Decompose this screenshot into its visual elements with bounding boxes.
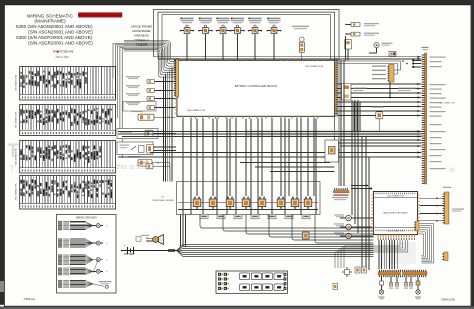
svg-text:73848 (5-04): 73848 (5-04)	[441, 299, 455, 302]
svg-text:HARNESS: HARNESS	[134, 34, 149, 38]
top sensor component 1	[181, 18, 194, 20]
verticals box-to-fuse	[196, 118, 198, 196]
left small sensor 3 (AIR FILTER SW)	[126, 93, 140, 94]
horn	[159, 235, 164, 245]
starter component	[342, 84, 352, 101]
ground bundle 2	[58, 238, 62, 239]
fuse label F4	[251, 214, 259, 219]
boxed component: traction lock	[117, 142, 153, 155]
wire from component 2 down to bus	[205, 34, 207, 61]
engine ground diagonal	[93, 284, 105, 287]
relay K6	[277, 199, 285, 207]
top frame wire B	[158, 12, 335, 140]
left feeder verticals	[113, 44, 124, 79]
bottom small middle components	[390, 277, 392, 282]
wire from component 3 down to bus	[222, 34, 224, 61]
svg-text:WIRING SCHEMATIC: WIRING SCHEMATIC	[27, 13, 74, 18]
a/c clutch coil	[374, 43, 379, 48]
svg-text:S300 (S/N A5GP20001 AND ABOVE): S300 (S/N A5GP20001 AND ABOVE)	[16, 35, 93, 40]
ground terminal 2	[96, 241, 100, 245]
relay K7	[291, 199, 299, 207]
gateway module connector	[389, 65, 394, 83]
svg-text:BATTERY CONTROLLER (BLACK): BATTERY CONTROLLER (BLACK)	[235, 84, 278, 88]
fuse label F3	[234, 214, 242, 219]
fuse label F1	[200, 214, 208, 219]
A5A bottom connector band	[374, 227, 417, 229]
alternator component	[345, 40, 352, 50]
ground terminal 1	[96, 224, 100, 228]
spark arrestor component	[138, 162, 145, 163]
wire from component 5 down to bus	[254, 34, 256, 61]
box bottom pins	[182, 116, 185, 118]
wire fan-out	[177, 245, 374, 251]
scan frame top	[0, 0, 474, 5]
ground terminal 3	[96, 258, 100, 262]
scan frame bottom	[0, 306, 474, 309]
J/A side connector strip (orange, left edge)	[176, 59, 179, 98]
top sensor component 6	[268, 18, 281, 20]
boxed component: seat bar sensor	[117, 129, 158, 139]
svg-text:(S/N A5GN20001 AND ABOVE): (S/N A5GN20001 AND ABOVE)	[28, 30, 93, 35]
bottom orange strips	[378, 272, 401, 275]
svg-text:WIRING GROUNDS: WIRING GROUNDS	[76, 218, 97, 220]
lower cylinder sensor	[128, 156, 141, 157]
small top fitting component	[389, 52, 396, 57]
top sensor component 3	[217, 18, 230, 20]
scan frame left notch	[0, 281, 4, 292]
svg-text:7294 w 7009: 7294 w 7009	[55, 57, 69, 59]
actuator connector	[444, 192, 449, 224]
svg-text:DOWNLOAD SERVICE MANUAL: DOWNLOAD SERVICE MANUAL	[78, 13, 123, 17]
svg-text:al: al	[449, 167, 455, 174]
left small sensor 2 (TEMP SENDER)	[126, 85, 140, 86]
right edge small orange bits	[416, 221, 420, 231]
round connector 1	[346, 215, 352, 221]
small orange relay below fuse	[303, 232, 310, 239]
round connector 3	[346, 233, 352, 239]
small right connector low	[444, 252, 448, 261]
svg-text:MAINFRAME: MAINFRAME	[133, 29, 151, 33]
sensor: air filter switch	[351, 23, 360, 27]
fuse link	[168, 249, 175, 252]
wire from component 6 down to bus	[273, 34, 275, 61]
label box around sensor 4	[123, 102, 156, 112]
ground bundle 3	[58, 254, 62, 255]
scan wash band below A5A	[380, 242, 416, 264]
svg-text:J/A CONNECTOR: J/A CONNECTOR	[15, 74, 18, 91]
fuse label F7	[302, 214, 310, 219]
box right edge connector strip	[335, 59, 338, 117]
legend grid box	[216, 271, 288, 293]
ground bundle 1	[58, 221, 62, 222]
legend right icon cluster	[284, 273, 287, 276]
fuse label F2	[217, 214, 225, 219]
arrowheads into strip	[418, 56, 421, 58]
relay K3	[226, 199, 234, 207]
box top pins	[183, 58, 186, 60]
svg-text:J/B CONNECTOR: J/B CONNECTOR	[439, 103, 455, 105]
connector table 2 (J/B pinout)	[20, 105, 116, 136]
relay row link wire	[178, 202, 318, 204]
fuel sender right	[376, 112, 383, 119]
gateway bottom junction dots	[389, 92, 391, 94]
svg-text:(MAINFRAME): (MAINFRAME)	[34, 19, 66, 24]
top frame wire A	[154, 10, 340, 186]
scan frame left	[0, 0, 4, 305]
svg-text:7159444 or: 7159444 or	[134, 38, 149, 42]
A5A left pins	[371, 195, 373, 196]
left small sensor 1 (HYDRAULIC OIL)	[126, 76, 140, 77]
verticals through fuse box	[182, 118, 184, 214]
box left pins lower	[175, 99, 178, 100]
relay K5	[258, 199, 266, 207]
nested corners bottom right	[420, 224, 434, 264]
wires to actuator connector	[420, 197, 445, 199]
svg-text:J5B CONNECTOR: J5B CONNECTOR	[16, 183, 18, 200]
svg-text:J/B CONNECTOR: J/B CONNECTOR	[305, 66, 323, 68]
ground bundle 4	[58, 267, 62, 268]
corner wires to gateway	[338, 61, 401, 70]
connector table 4 (J5B pinout)	[20, 176, 116, 210]
vertical wire bundle to fuse center	[163, 77, 165, 182]
relay K2	[209, 199, 217, 207]
dotted wires into strip top	[415, 60, 422, 62]
strip labels right	[430, 57, 446, 58]
fuse relay center box	[177, 182, 321, 215]
scan frame right	[471, 0, 474, 309]
nested wire corner bundle	[124, 41, 176, 60]
left small sensor 4 (OIL PRESSURE)	[126, 102, 140, 103]
scan wash band mid	[246, 130, 422, 137]
bottom left terminal	[381, 277, 383, 289]
red banner	[79, 13, 123, 18]
top sensor component 5	[249, 18, 262, 20]
ground terminal 4	[96, 269, 100, 273]
fuel shutoff solenoid	[292, 26, 309, 28]
cross component	[342, 267, 352, 277]
horizontals into strip	[338, 83, 422, 85]
legend cells	[240, 273, 250, 280]
mid bus wires	[118, 131, 422, 133]
top sensor component 4	[231, 18, 244, 20]
top sensor component 2	[199, 18, 212, 20]
battery	[122, 250, 177, 252]
svg-text:T: T	[9, 164, 15, 174]
relay K4	[242, 199, 250, 207]
A5A bottom pin row 2	[378, 238, 379, 240]
sensor: engine temp sender	[351, 32, 360, 36]
relay K1	[193, 199, 201, 207]
J/W horizontal connector	[334, 191, 350, 193]
fan feeder verticals	[180, 215, 182, 248]
wire from component 4 down to bus	[237, 34, 239, 61]
top bus wire 2	[158, 58, 422, 60]
svg-text:P/N 6737585-046: P/N 6737585-046	[53, 50, 74, 54]
svg-text:LARGE FRAME: LARGE FRAME	[131, 25, 153, 29]
fuel sender cylinder	[131, 111, 143, 112]
right mid verticals	[353, 102, 355, 132]
svg-text:BATTERY: BATTERY	[124, 253, 135, 256]
glow plug dots	[351, 185, 368, 187]
svg-text:J/B CONNECTOR: J/B CONNECTOR	[16, 111, 18, 128]
top frame wire C	[162, 15, 331, 61]
staircase wires fuse-to-controller	[200, 215, 374, 229]
legend left icon cluster	[218, 273, 221, 276]
svg-text:J5A CONNECTOR: J5A CONNECTOR	[387, 230, 404, 233]
wire from component 1 down to bus	[186, 34, 188, 61]
wiring grounds box	[57, 215, 117, 294]
A5A right pins	[417, 195, 419, 196]
bottom right terminal	[417, 277, 419, 289]
fuse label F5	[268, 214, 276, 219]
wires below A5A controller	[378, 240, 380, 269]
relay box (glow plug)	[325, 140, 339, 162]
J/B connector vertical strip	[425, 53, 427, 184]
relay K8	[304, 199, 312, 207]
round connector 2	[346, 224, 352, 230]
connector table 1 (J/A pinout)	[20, 66, 116, 100]
ground bundle 5	[58, 280, 62, 281]
svg-text:FUSE RELAY CENTER: FUSE RELAY CENTER	[152, 199, 174, 202]
fuse label F6	[285, 214, 293, 219]
mid extra horizontals	[240, 162, 330, 164]
P2 tiny box	[136, 237, 141, 241]
svg-text:J5A CONNECTOR: J5A CONNECTOR	[15, 148, 18, 165]
svg-text:(S/N A5GR20001 AND ABOVE): (S/N A5GR20001 AND ABOVE)	[28, 40, 93, 45]
strip top label	[422, 47, 429, 48]
top bus wire 1	[154, 56, 422, 58]
connector table 3 (J5A pinout)	[20, 141, 116, 174]
mid bus wire lower	[150, 152, 422, 154]
small block pair	[355, 267, 360, 273]
left small connector pair	[333, 284, 338, 290]
svg-text:J/A CONNECTOR: J/A CONNECTOR	[187, 109, 205, 112]
A5A bottom pin row	[378, 234, 379, 237]
A5A controller box	[374, 192, 418, 235]
A5A top connector band	[374, 196, 417, 198]
svg-text:A5A CONTROLLER (GRAY): A5A CONTROLLER (GRAY)	[384, 212, 408, 215]
svg-text:S250 (S/N A5GM20001 AND ABOVE): S250 (S/N A5GM20001 AND ABOVE)	[15, 24, 93, 29]
right-mid vertical wires	[340, 60, 342, 186]
svg-text:-7848-UA: -7848-UA	[23, 297, 35, 301]
battery controller box	[177, 60, 335, 116]
bundle3 merge diagonal	[93, 260, 98, 273]
